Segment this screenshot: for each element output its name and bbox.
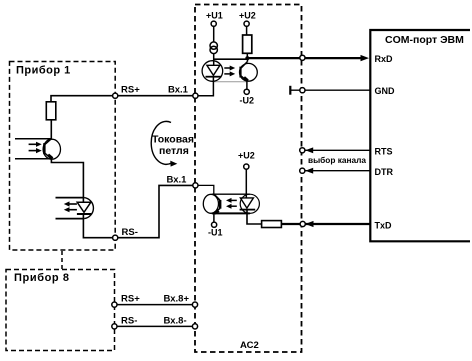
terminal RS- (8) (112, 324, 117, 329)
light arrows into Q3 (29, 142, 42, 154)
terminal RS+ (8) (112, 302, 117, 307)
DTR wire (305, 170, 370, 172)
phototransistor Q3 (43, 139, 60, 160)
LED D3 (77, 202, 91, 214)
svg-text:+U2: +U2 (239, 10, 256, 20)
terminal -U2 (244, 89, 249, 94)
node RTS crossing (300, 148, 305, 153)
svg-text:Токовая: Токовая (152, 134, 194, 146)
wire Q1 collector to junction (247, 58, 249, 61)
wire Вх.1 lower to Q2 collector (198, 185, 214, 194)
svg-text:RxD: RxD (375, 54, 394, 64)
node GND crossing (300, 88, 305, 93)
terminal +U1 (211, 21, 216, 26)
terminal RS- (113, 235, 118, 240)
RxD wire (247, 57, 362, 59)
GND wire (290, 89, 370, 91)
wire Q2 emitter to -U1 (213, 212, 215, 222)
wire R3 to Q3 collector (50, 120, 52, 139)
svg-text:петля: петля (159, 145, 189, 157)
svg-text:+U2: +U2 (238, 150, 255, 160)
resistor R1 (243, 35, 252, 53)
svg-text:Вх.1: Вх.1 (167, 175, 188, 186)
svg-text:RS+: RS+ (121, 85, 140, 96)
svg-text:+U1: +U1 (206, 10, 223, 20)
wire I1 to LED D1 (213, 54, 215, 66)
optocoupler U1 lower: envelope tangents (212, 193, 250, 195)
node RxD crossing (300, 55, 305, 60)
envelope circle around D2 (240, 194, 259, 213)
svg-text:выбор канала: выбор канала (308, 155, 366, 165)
RTS wire (305, 149, 370, 151)
svg-text:RS-: RS- (121, 315, 137, 326)
current source I1 (210, 42, 217, 54)
opto half tangent lines (Прибор 1 upper) (15, 139, 52, 159)
wires Прибор 8 to AC2 (117, 305, 192, 327)
wire R2 to D2 cathode (247, 210, 262, 224)
terminal +U2 (lower) (244, 164, 249, 169)
svg-text:RS+: RS+ (121, 294, 140, 305)
svg-text:Прибор 1: Прибор 1 (16, 65, 71, 77)
LED D1 (206, 65, 222, 76)
device box Прибор 1 (10, 62, 116, 251)
opto half tangent lines (Прибор 1 lower) (56, 198, 85, 219)
device box Прибор 8 (6, 270, 115, 351)
node DTR crossing (300, 168, 305, 173)
svg-text:Прибор 8: Прибор 8 (14, 272, 70, 284)
svg-text:Вх.8-: Вх.8- (164, 315, 187, 326)
terminal +U2 (244, 21, 249, 26)
svg-text:Вх.1: Вх.1 (168, 85, 189, 96)
continuation dashed segment between device boxes (61, 251, 63, 269)
light arrows out of D3 (64, 201, 77, 212)
wire Q3 emitter to LED D3 (51, 159, 83, 203)
svg-text:COM-порт ЭВМ: COM-порт ЭВМ (385, 34, 464, 46)
svg-text:RS-: RS- (122, 227, 138, 238)
COM port box (370, 30, 470, 241)
wire +U2 to resistor R1 (246, 26, 248, 35)
terminal Вх.8+ (192, 302, 197, 307)
terminal Вх.1 lower (193, 183, 198, 188)
svg-text:DTR: DTR (375, 167, 394, 177)
optocoupler U1 upper: envelope tangents (213, 58, 246, 60)
wire D3 to RS- (83, 214, 112, 238)
svg-text:TxD: TxD (375, 220, 393, 230)
phototransistor Q1 (240, 62, 258, 82)
node TxD crossing (300, 221, 305, 226)
TxD wire (281, 223, 370, 225)
terminal Вх.8- (192, 324, 197, 329)
wire +U2 to LED D2 (245, 169, 247, 198)
svg-text:-U2: -U2 (240, 96, 255, 106)
wire Q1 emitter to -U2 (246, 81, 248, 89)
resistor R2 (262, 221, 282, 228)
LED D2 (240, 198, 256, 210)
svg-text:АС2: АС2 (240, 340, 259, 351)
light arrows D1 to Q1 (224, 66, 235, 77)
wire R1 to junction (246, 53, 248, 58)
envelope circle around D1 (202, 61, 223, 82)
svg-text:Вх.8+: Вх.8+ (164, 294, 190, 305)
current loop arc (151, 121, 171, 164)
terminal RS+ (113, 93, 118, 98)
svg-text:RTS: RTS (375, 146, 393, 156)
svg-text:-U1: -U1 (208, 228, 223, 238)
envelope arc around D3 (84, 198, 93, 219)
resistor R3 (46, 102, 56, 120)
wire RS+ to Вх.1 (118, 95, 193, 97)
terminal Вх.1 upper (193, 93, 198, 98)
svg-text:GND: GND (375, 86, 396, 96)
terminal -U1 (212, 222, 217, 227)
wire D1 cathode to Вх.1 (198, 77, 213, 96)
GND end tick (289, 86, 291, 95)
adapter box AC2 (195, 5, 302, 353)
junction dot (245, 56, 249, 60)
phototransistor Q2 (203, 194, 220, 215)
light arrows D2 to Q2 (226, 198, 237, 209)
wire +U1 to current source (213, 26, 215, 42)
wire RS+ to resistor R3 (51, 96, 113, 102)
wire RS- to Вх.1 lower (118, 185, 193, 237)
